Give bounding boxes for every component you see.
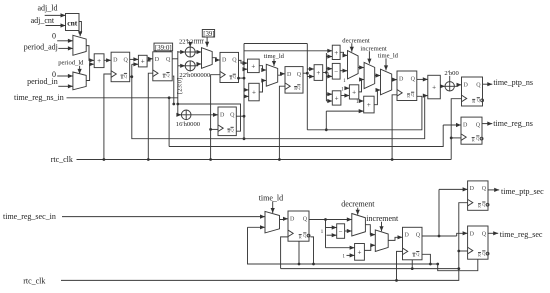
svg-text:+: + <box>352 88 356 96</box>
svg-text:+: + <box>141 58 145 66</box>
svg-text:22'h000000: 22'h000000 <box>179 72 211 79</box>
svg-text:Q: Q <box>230 112 235 118</box>
svg-text:Q: Q <box>303 216 308 222</box>
svg-text:Q: Q <box>416 233 421 239</box>
svg-text:D: D <box>470 231 475 237</box>
svg-text:period_adj: period_adj <box>24 43 58 52</box>
svg-text:D: D <box>463 122 468 128</box>
svg-text:+: + <box>97 57 101 65</box>
svg-text:D: D <box>222 58 227 64</box>
svg-text:Q: Q <box>482 186 487 192</box>
svg-text:D: D <box>464 82 469 88</box>
svg-text:time_ld: time_ld <box>378 52 399 59</box>
svg-text:Q: Q <box>297 72 302 78</box>
svg-text:+: + <box>367 101 371 109</box>
svg-text:time_ptp_ns: time_ptp_ns <box>493 78 533 87</box>
svg-text:D: D <box>220 112 225 118</box>
svg-text:time_ptp_sec: time_ptp_sec <box>501 187 544 196</box>
svg-text:cnt: cnt <box>67 18 78 27</box>
svg-text:rtc_clk: rtc_clk <box>23 276 45 285</box>
svg-text:2'b00: 2'b00 <box>444 70 459 77</box>
svg-text:16'h0000: 16'h0000 <box>176 121 201 128</box>
svg-text:decrement: decrement <box>342 37 370 44</box>
svg-text:−: − <box>339 227 343 235</box>
svg-text:D: D <box>290 216 295 222</box>
svg-text:+: + <box>358 248 362 256</box>
svg-text:increment: increment <box>360 45 387 52</box>
svg-text:+: + <box>334 49 338 57</box>
svg-text:Q: Q <box>411 76 416 82</box>
svg-text:D: D <box>287 72 292 78</box>
svg-text:[39]: [39] <box>203 31 214 38</box>
svg-text:D: D <box>470 186 475 192</box>
svg-text:decrement: decrement <box>341 200 375 209</box>
svg-text:period_ld: period_ld <box>58 59 84 66</box>
svg-text:time_reg_sec_in: time_reg_sec_in <box>3 212 56 221</box>
svg-text:D: D <box>399 76 404 82</box>
svg-text:+: + <box>252 88 256 96</box>
svg-text:−: − <box>334 68 338 76</box>
svg-text:Q: Q <box>124 58 129 64</box>
svg-text:D: D <box>113 58 118 64</box>
svg-text:time_reg_ns: time_reg_ns <box>493 119 533 128</box>
svg-text:[39:0]: [39:0] <box>155 45 172 52</box>
svg-text:increment: increment <box>366 214 399 223</box>
svg-text:adj_cnt: adj_cnt <box>31 16 55 25</box>
svg-text:Q: Q <box>476 122 481 128</box>
svg-text:D: D <box>405 233 410 239</box>
svg-text:Q: Q <box>232 58 237 64</box>
svg-text:D: D <box>155 57 160 63</box>
svg-text:adj_ld: adj_ld <box>38 4 58 13</box>
svg-text:+: + <box>335 94 339 102</box>
svg-text:period_in: period_in <box>27 77 58 86</box>
svg-text:0: 0 <box>52 31 56 40</box>
svg-text:time_reg_sec: time_reg_sec <box>500 230 543 239</box>
svg-text:+: + <box>316 69 320 77</box>
svg-text:+: + <box>432 83 436 91</box>
svg-text:time_ld: time_ld <box>259 193 283 202</box>
svg-text:time_reg_ns_in: time_reg_ns_in <box>14 93 64 102</box>
svg-text:[23:0]: [23:0] <box>177 78 184 94</box>
svg-text:Q: Q <box>476 82 481 88</box>
svg-text:+: + <box>251 62 255 70</box>
svg-text:rtc_clk: rtc_clk <box>51 155 73 164</box>
svg-text:Q: Q <box>482 231 487 237</box>
svg-text:Q: Q <box>166 57 171 63</box>
